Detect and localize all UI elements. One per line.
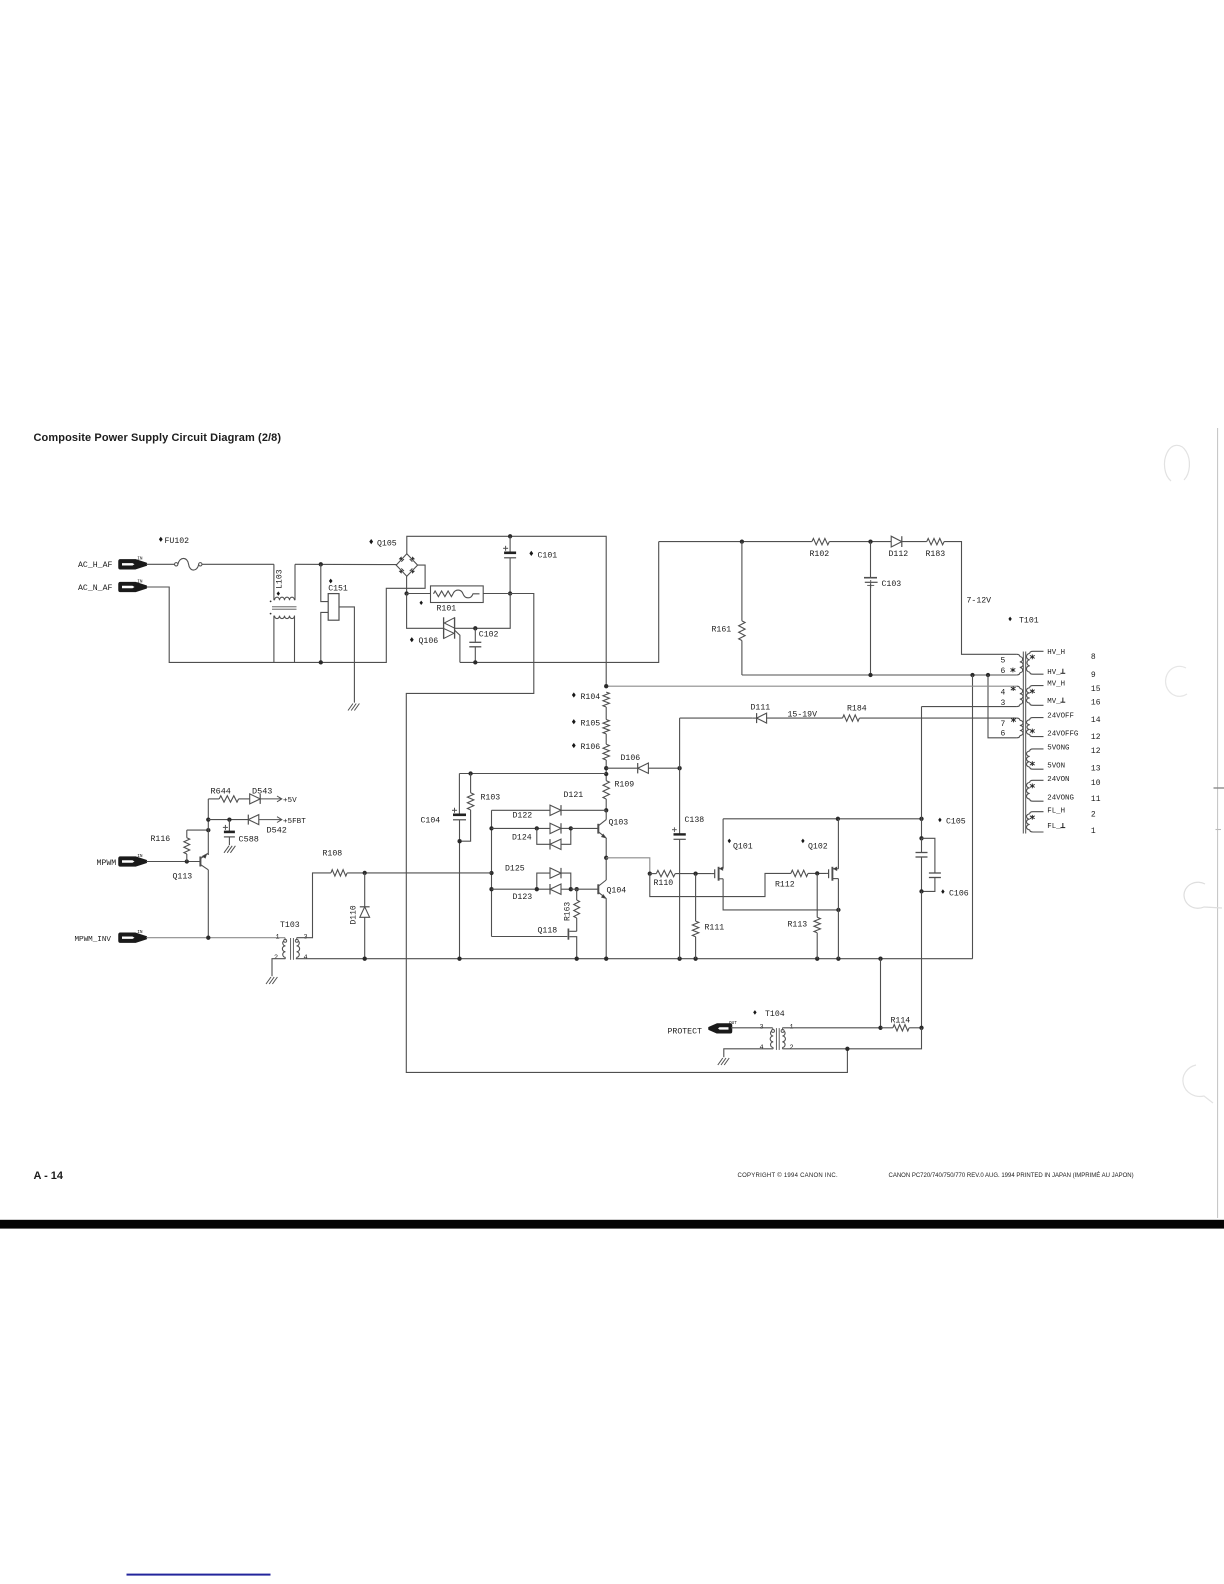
svg-text:7-12V: 7-12V <box>967 597 992 606</box>
svg-text:7: 7 <box>1001 720 1006 729</box>
junction <box>845 1047 849 1051</box>
svg-text:3: 3 <box>760 1023 764 1031</box>
svg-text:R116: R116 <box>151 835 171 844</box>
capacitor C151 <box>321 564 328 601</box>
junction <box>604 684 608 688</box>
junction <box>319 660 323 664</box>
resistor R111 <box>695 874 697 922</box>
svg-text:Q105: Q105 <box>377 540 397 549</box>
junction <box>693 871 697 875</box>
svg-text:T101: T101 <box>1019 617 1039 626</box>
svg-text:D124: D124 <box>512 834 532 843</box>
resistor R101 <box>407 593 431 595</box>
svg-text:HV_: HV_ <box>1047 669 1061 677</box>
svg-text:A - 14: A - 14 <box>34 1170 64 1182</box>
svg-text:IN: IN <box>137 579 143 584</box>
junction <box>836 908 840 912</box>
svg-text:R161: R161 <box>712 626 732 635</box>
resistor R161 <box>741 542 743 621</box>
wire <box>782 1027 881 1029</box>
junction <box>878 1026 882 1030</box>
transistor Q102 <box>828 869 830 878</box>
resistor R105 <box>603 720 609 734</box>
resistor R163 <box>576 889 578 900</box>
svg-text:2: 2 <box>274 954 278 962</box>
svg-text:Q103: Q103 <box>609 819 629 828</box>
diode D121 <box>492 809 551 811</box>
svg-text:R102: R102 <box>810 550 830 559</box>
svg-text:10: 10 <box>1091 779 1101 788</box>
separator bar <box>0 1220 1224 1229</box>
svg-text:R101: R101 <box>437 605 457 614</box>
svg-text:9: 9 <box>1091 671 1096 680</box>
svg-text:Q101: Q101 <box>733 842 753 851</box>
wire <box>782 1028 921 1049</box>
junction <box>604 957 608 961</box>
wire <box>988 675 1017 738</box>
diode D106 <box>606 767 638 769</box>
ground <box>224 846 229 853</box>
wire <box>606 858 650 874</box>
wire <box>347 872 491 874</box>
svg-text:R106: R106 <box>581 743 601 752</box>
diode D542 <box>208 819 248 821</box>
junction <box>319 562 323 566</box>
svg-text:C105: C105 <box>946 818 966 827</box>
net label +5FBT <box>259 817 282 823</box>
resistor R106 <box>603 744 609 760</box>
svg-text:IN: IN <box>137 557 143 562</box>
junction <box>535 826 539 830</box>
junction <box>648 871 652 875</box>
capacitor C588 <box>228 820 230 832</box>
svg-text:5VONG: 5VONG <box>1047 745 1069 753</box>
svg-text:PROTECT: PROTECT <box>668 1028 702 1037</box>
resistor R113 <box>816 873 818 917</box>
wire <box>829 541 891 543</box>
svg-text:14: 14 <box>1091 716 1101 725</box>
svg-text:D111: D111 <box>751 704 771 713</box>
svg-text:Composite Power Supply Circuit: Composite Power Supply Circuit Diagram (… <box>34 432 282 444</box>
svg-text:4: 4 <box>1001 689 1006 698</box>
junction <box>404 591 408 595</box>
junction <box>970 673 974 677</box>
svg-text:FL_H: FL_H <box>1047 807 1065 815</box>
junction <box>836 817 840 821</box>
svg-text:R109: R109 <box>615 781 635 790</box>
resistor R108 <box>331 870 347 876</box>
transistor Q113 <box>199 857 201 867</box>
junction <box>489 887 493 891</box>
junction <box>815 871 819 875</box>
wire 7-12V <box>944 542 1017 655</box>
svg-text:2: 2 <box>1091 811 1096 820</box>
svg-text:13: 13 <box>1091 764 1101 773</box>
svg-text:D121: D121 <box>564 791 584 800</box>
svg-text:5: 5 <box>1001 657 1006 666</box>
wire <box>272 959 285 977</box>
ground <box>266 977 271 984</box>
svg-text:R103: R103 <box>481 794 501 803</box>
T101 secondary HV winding <box>1030 651 1044 653</box>
junction <box>868 673 872 677</box>
junction <box>693 957 697 961</box>
T101 primary winding 5-6 <box>1017 654 1020 656</box>
svg-text:D542: D542 <box>267 826 287 836</box>
wire <box>659 541 812 543</box>
wire <box>680 717 753 719</box>
svg-text:8: 8 <box>1091 653 1096 662</box>
T101 secondary 5VON winding <box>1030 749 1044 751</box>
junction <box>206 817 210 821</box>
resistor R183 <box>927 538 944 544</box>
capacitor C102 <box>474 628 476 642</box>
svg-text:C104: C104 <box>421 817 441 826</box>
wire <box>742 674 1017 676</box>
ground <box>718 1058 723 1065</box>
binder hole artifact <box>1183 1065 1213 1103</box>
junction <box>363 871 367 875</box>
triac Q106 <box>443 617 445 638</box>
svg-text:CANON PC720/740/750/770 REV.0: CANON PC720/740/750/770 REV.0 AUG. 1994 … <box>889 1172 1134 1179</box>
svg-text:R183: R183 <box>926 550 946 559</box>
svg-text:IN: IN <box>137 854 143 859</box>
wire <box>491 810 493 936</box>
resistor R102 <box>812 538 829 544</box>
junction <box>919 836 923 840</box>
svg-text:+5V: +5V <box>283 797 297 805</box>
diode D111 <box>756 713 758 723</box>
svg-text:R184: R184 <box>847 705 867 714</box>
resistor R116 <box>186 830 188 838</box>
edge tick <box>1216 829 1222 831</box>
wire <box>146 563 174 565</box>
svg-text:MPWM_INV: MPWM_INV <box>75 936 112 944</box>
T101 primary winding 7-6 <box>1017 718 1020 720</box>
svg-text:C103: C103 <box>882 580 902 589</box>
wire <box>297 873 331 938</box>
fuse FU102 <box>175 563 178 566</box>
resistor R184 <box>843 715 860 721</box>
transistor Q118 <box>492 936 568 938</box>
wire <box>605 760 607 781</box>
wire pin3 <box>922 706 1017 708</box>
wire <box>859 717 1016 719</box>
svg-text:D543: D543 <box>252 787 272 797</box>
svg-text:15: 15 <box>1091 685 1101 694</box>
diode D112 <box>891 536 902 547</box>
capacitor C138 <box>679 718 681 834</box>
junction <box>457 839 461 843</box>
wire <box>407 536 606 686</box>
wire drain rail <box>723 818 921 820</box>
svg-text:D123: D123 <box>513 893 533 902</box>
wire <box>880 959 882 1028</box>
junction <box>604 766 608 770</box>
svg-text:R111: R111 <box>705 924 725 933</box>
svg-text:24VON: 24VON <box>1047 776 1069 784</box>
capacitor C104 <box>458 774 460 815</box>
svg-text:R104: R104 <box>581 693 601 702</box>
svg-text:Q102: Q102 <box>808 842 828 851</box>
wire <box>459 773 606 775</box>
junction <box>919 889 923 893</box>
svg-text:R105: R105 <box>581 719 601 728</box>
wire <box>455 594 511 629</box>
junction <box>468 771 472 775</box>
resistor R104 <box>603 692 609 707</box>
resistor R110 <box>650 873 657 875</box>
svg-text:1: 1 <box>276 933 280 941</box>
svg-text:D112: D112 <box>889 550 909 559</box>
diode D122 <box>492 827 551 829</box>
junction <box>535 887 539 891</box>
svg-text:R110: R110 <box>654 879 674 888</box>
wire <box>767 717 843 719</box>
junction <box>836 957 840 961</box>
wire <box>146 937 285 939</box>
wire <box>202 563 274 565</box>
junction <box>677 766 681 770</box>
wire <box>650 873 791 896</box>
wire <box>571 827 599 829</box>
svg-text:AC_H_AF: AC_H_AF <box>78 561 112 570</box>
svg-text:24VOFF: 24VOFF <box>1047 713 1074 721</box>
svg-text:24VONG: 24VONG <box>1047 794 1074 802</box>
junction <box>206 936 210 940</box>
binder hole artifact <box>1164 445 1189 481</box>
svg-text:6: 6 <box>1001 667 1006 676</box>
svg-text:D110: D110 <box>350 905 359 924</box>
transformer T101 <box>1008 617 1011 622</box>
svg-text:6: 6 <box>1001 730 1006 739</box>
bridge rectifier Q105 <box>396 554 417 576</box>
capacitor C105 <box>921 838 923 852</box>
svg-text:MPWM: MPWM <box>97 859 117 868</box>
capacitor C103 <box>870 542 872 578</box>
svg-text:D125: D125 <box>505 865 525 874</box>
svg-text:R108: R108 <box>323 850 343 859</box>
svg-text:11: 11 <box>1091 795 1101 804</box>
junction <box>604 856 608 860</box>
wire <box>731 1027 773 1029</box>
wire <box>460 542 659 663</box>
svg-text:4: 4 <box>304 954 308 962</box>
junction <box>575 887 579 891</box>
wire <box>605 707 607 720</box>
svg-text:Q104: Q104 <box>607 887 627 896</box>
wire <box>407 594 444 629</box>
svg-text:5VON: 5VON <box>1047 762 1065 770</box>
svg-text:+5FBT: +5FBT <box>283 818 306 826</box>
transistor Q103 <box>597 824 599 834</box>
junction <box>489 826 493 830</box>
svg-text:R163: R163 <box>564 902 573 921</box>
transistor Q104 <box>597 884 599 894</box>
wire <box>187 829 209 831</box>
T101 secondary 24VON winding <box>1030 780 1044 782</box>
T101 secondary MV winding <box>1030 686 1044 688</box>
diode D543 <box>239 798 250 800</box>
wire <box>837 819 839 869</box>
wire <box>146 861 200 863</box>
svg-text:T103: T103 <box>280 921 300 930</box>
svg-text:T104: T104 <box>765 1010 785 1019</box>
wire <box>837 879 839 959</box>
junction <box>508 591 512 595</box>
wire <box>675 873 712 875</box>
resistor R644 <box>208 798 219 800</box>
diode D110 <box>364 873 366 907</box>
junction <box>986 673 990 677</box>
junction <box>185 859 189 863</box>
svg-text:FL_: FL_ <box>1047 823 1061 831</box>
resistor R109 <box>603 781 609 799</box>
junction <box>575 957 579 961</box>
svg-text:C101: C101 <box>538 552 558 561</box>
junction <box>740 539 744 543</box>
svg-text:R644: R644 <box>211 787 231 797</box>
capacitor C106 <box>922 838 935 872</box>
junction <box>569 826 573 830</box>
wire <box>972 675 974 959</box>
wire <box>724 1049 773 1057</box>
junction <box>878 957 882 961</box>
junction <box>868 539 872 543</box>
junction <box>919 817 923 821</box>
junction <box>508 534 512 538</box>
wire <box>406 576 408 593</box>
svg-text:16: 16 <box>1091 699 1101 708</box>
svg-text:OUT: OUT <box>729 1021 737 1026</box>
svg-text:4: 4 <box>760 1044 764 1052</box>
svg-text:C151: C151 <box>328 585 348 594</box>
wire <box>722 819 724 869</box>
resistor R114 <box>881 1027 893 1029</box>
binder hole artifact <box>1166 666 1187 696</box>
wire <box>808 872 827 874</box>
resistor R112 <box>791 870 808 876</box>
junction <box>206 828 210 832</box>
svg-text:R113: R113 <box>788 921 808 930</box>
wire <box>207 799 209 855</box>
junction <box>919 1026 923 1030</box>
wire <box>296 958 973 960</box>
junction <box>569 887 573 891</box>
diode D125 <box>537 873 550 889</box>
svg-text:C102: C102 <box>479 631 499 640</box>
resistor R103 <box>470 774 472 793</box>
T101 secondary FL winding <box>1030 812 1044 814</box>
svg-text:Q118: Q118 <box>538 927 558 936</box>
net label +5V <box>260 796 282 802</box>
wire <box>921 707 923 819</box>
svg-text:12: 12 <box>1091 747 1101 756</box>
junction <box>604 772 608 776</box>
svg-text:12: 12 <box>1091 733 1101 742</box>
svg-text:HV_H: HV_H <box>1047 649 1065 657</box>
edge tick <box>1214 787 1224 789</box>
svg-text:L103: L103 <box>276 569 285 589</box>
choke L103 <box>273 564 275 600</box>
svg-text:Q113: Q113 <box>173 873 193 882</box>
wire <box>571 888 599 890</box>
svg-text:1: 1 <box>1091 827 1096 836</box>
junction <box>227 817 231 821</box>
junction <box>473 660 477 664</box>
svg-text:IN: IN <box>137 930 143 935</box>
svg-text:Q106: Q106 <box>419 637 439 646</box>
T101 secondary 24VOFF winding <box>1030 718 1044 720</box>
svg-text:COPYRIGHT © 1994 CANON INC.: COPYRIGHT © 1994 CANON INC. <box>738 1172 838 1179</box>
wire <box>921 891 923 1027</box>
wire <box>295 563 397 565</box>
wire pin4 MV <box>606 685 1016 687</box>
wire <box>605 734 607 744</box>
transistor Q101 <box>714 869 716 878</box>
diode D124 <box>537 828 550 844</box>
wire <box>909 1027 921 1029</box>
svg-text:C138: C138 <box>685 816 705 825</box>
svg-text:2: 2 <box>790 1044 794 1052</box>
wire <box>146 565 425 662</box>
wire <box>723 879 838 910</box>
transformer T104 <box>753 1010 756 1015</box>
ground <box>348 704 353 711</box>
svg-text:D106: D106 <box>621 754 641 763</box>
junction <box>677 957 681 961</box>
blue underline mark <box>127 1574 271 1576</box>
svg-text:24VOFFG: 24VOFFG <box>1047 730 1078 738</box>
svg-text:C588: C588 <box>239 835 259 845</box>
junction <box>815 957 819 961</box>
binder hole artifact <box>1184 882 1222 908</box>
capacitor C101 <box>509 536 511 552</box>
svg-text:C106: C106 <box>949 889 969 898</box>
svg-text:R114: R114 <box>891 1017 911 1026</box>
svg-text:MV_H: MV_H <box>1047 681 1065 689</box>
svg-text:MV_: MV_ <box>1047 698 1061 706</box>
junction <box>457 957 461 961</box>
wire <box>406 594 847 1073</box>
wire <box>921 819 923 839</box>
page edge line <box>1217 428 1219 1218</box>
T101 primary winding 4-3 <box>1017 686 1020 688</box>
diode D123 <box>492 888 551 890</box>
junction <box>473 626 477 630</box>
svg-text:FU102: FU102 <box>165 537 190 546</box>
svg-text:R112: R112 <box>775 880 795 889</box>
junction <box>489 871 493 875</box>
svg-text:AC_N_AF: AC_N_AF <box>78 584 112 593</box>
svg-text:D122: D122 <box>513 812 533 821</box>
junction <box>363 957 367 961</box>
svg-text:3: 3 <box>1001 699 1006 708</box>
junction <box>604 808 608 812</box>
wire <box>902 541 927 543</box>
